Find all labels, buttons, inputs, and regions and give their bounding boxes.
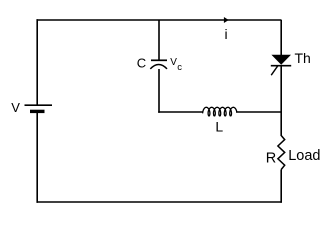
wire right vertical bottom (resistor to bottom)	[280, 170, 282, 203]
thyristor Th cathode bar	[271, 65, 291, 67]
battery V short thick plate	[30, 110, 45, 113]
svg-text:Th: Th	[295, 50, 311, 66]
capacitor C curved plate	[150, 65, 167, 69]
current arrow i head	[224, 17, 229, 23]
battery V long plate	[25, 104, 53, 106]
wire left vertical upper (V+ to top)	[36, 19, 38, 105]
svg-text:C: C	[137, 56, 146, 71]
svg-text:L: L	[215, 119, 223, 135]
resistor R zigzag	[278, 136, 285, 170]
thyristor Th gate lead	[271, 66, 278, 76]
wire capacitor branch lower	[158, 69, 160, 113]
wire L branch right stub	[236, 111, 282, 113]
inductor L bottom knots	[208, 114, 210, 116]
svg-text:R: R	[266, 150, 276, 166]
wire capacitor branch upper	[158, 20, 160, 60]
thyristor Th triangle	[271, 55, 291, 65]
inductor L coil	[203, 107, 237, 116]
wire left vertical lower (V- to bottom)	[36, 111, 38, 202]
capacitor C flat plate	[151, 59, 167, 61]
svg-text:i: i	[225, 26, 228, 42]
svg-text:V: V	[11, 100, 20, 115]
wire top horizontal	[37, 19, 282, 21]
svg-text:Load: Load	[288, 148, 320, 164]
wire right vertical middle (cathode to resistor)	[280, 66, 282, 136]
wire L branch left stub	[158, 111, 203, 113]
wire bottom horizontal	[37, 201, 282, 203]
svg-text:c: c	[177, 62, 182, 73]
wire right vertical top (to thyristor anode)	[280, 20, 282, 56]
